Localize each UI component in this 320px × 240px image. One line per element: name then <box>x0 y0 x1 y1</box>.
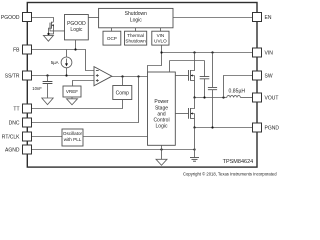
svg-text:Thermal: Thermal <box>127 33 144 38</box>
junction PGND/C3 <box>211 126 213 128</box>
svg-text:Control: Control <box>153 118 169 124</box>
svg-text:AGND: AGND <box>5 147 20 153</box>
VREF block <box>63 86 81 97</box>
junction VIN/rail riser <box>193 51 195 53</box>
svg-text:Shutdown: Shutdown <box>125 39 146 44</box>
wire Power Stage bottom ground stub <box>161 145 163 159</box>
junction AGND / PGND gnd <box>193 148 195 150</box>
svg-text:and: and <box>157 111 166 117</box>
OCP block <box>103 31 121 45</box>
svg-text:with PLL: with PLL <box>64 137 82 142</box>
pin SS/TR <box>23 71 32 80</box>
svg-text:VIN: VIN <box>157 33 165 38</box>
wire FB net <box>32 50 95 71</box>
svg-text:UVLO: UVLO <box>154 39 167 44</box>
pin PGOOD <box>23 13 32 22</box>
svg-text:5µA: 5µA <box>51 60 59 65</box>
svg-text:Copyright © 2018, Texas Instru: Copyright © 2018, Texas Instruments Inco… <box>183 172 277 177</box>
wire Comp top stub <box>122 77 124 86</box>
capacitor C2 <box>200 61 210 98</box>
wire VREF to amp <box>73 81 95 87</box>
wire AGND net <box>32 149 195 151</box>
Shutdown Logic block <box>99 8 173 27</box>
pin TT <box>23 104 32 113</box>
svg-text:TT: TT <box>13 106 19 112</box>
VIN UVLO block <box>152 31 169 45</box>
svg-text:SW: SW <box>265 73 273 79</box>
inductor L1 0.85uH <box>227 96 241 98</box>
svg-text:Logic: Logic <box>156 124 168 130</box>
wire SW pin branch <box>224 76 253 98</box>
junction FB / PGOOD Logic <box>74 48 76 50</box>
junction SW branch <box>222 96 224 98</box>
wire Shutdown Logic to VIN UVLO <box>160 28 162 31</box>
op-amp U1 error amplifier <box>94 67 112 86</box>
svg-text:PGOOD: PGOOD <box>1 15 20 21</box>
ground (under C1) <box>42 98 53 105</box>
junction VIN/C3 <box>211 51 213 53</box>
pin VOUT <box>253 93 262 102</box>
wire Shutdown Logic to OCP <box>111 28 113 31</box>
wire SS/TR net <box>32 75 95 77</box>
ground (analog, under Power Stage) <box>156 159 167 165</box>
wire PGND to ground <box>194 128 196 158</box>
pin EN <box>253 13 262 22</box>
wire PGOOD Logic to Shutdown Logic <box>88 17 98 19</box>
ground (under Q1) <box>43 35 53 41</box>
junction SW/FETs <box>193 96 195 98</box>
junction VIN/UVLO <box>160 51 162 53</box>
wire TT net to Comp <box>32 100 123 109</box>
svg-text:EN: EN <box>265 15 272 21</box>
ground (under VREF) <box>67 99 78 105</box>
wire inductor to VOUT <box>240 97 252 99</box>
junction Q1 source/body <box>47 33 49 35</box>
transistor Q2 (high side) <box>175 61 194 98</box>
svg-text:Comp: Comp <box>116 90 130 96</box>
junction output/DNC riser <box>137 75 139 77</box>
transistor Q3 (low side) <box>175 98 194 128</box>
svg-text:VIN: VIN <box>265 50 274 56</box>
module border <box>27 3 257 168</box>
svg-text:Logic: Logic <box>130 17 142 23</box>
svg-text:Logic: Logic <box>70 27 82 33</box>
wire RT/CLK to oscillator <box>32 136 63 138</box>
wire VIN rail above FET <box>170 53 205 73</box>
svg-text:SS/TR: SS/TR <box>5 73 20 79</box>
wire PGND net <box>195 127 253 129</box>
Thermal Shutdown block <box>125 31 147 45</box>
wire PGOOD pin to Q1 drain <box>32 18 54 22</box>
Comp block <box>113 86 132 100</box>
svg-text:VREF: VREF <box>66 89 78 94</box>
pin PGND <box>253 123 262 132</box>
wire oscillator to Power Stage <box>83 136 148 138</box>
current source I1 5uA <box>61 50 72 76</box>
wire Shutdown Logic to Thermal Shutdown <box>135 28 137 31</box>
svg-text:FB: FB <box>13 47 20 53</box>
capacitor C1 10nF <box>43 76 53 99</box>
pin VIN <box>253 48 262 57</box>
junction SS/TR / C1 <box>46 74 48 76</box>
svg-text:Power: Power <box>154 99 169 105</box>
svg-text:Oscillator: Oscillator <box>63 131 83 136</box>
pin DNC <box>23 118 32 127</box>
pin RT/CLK <box>23 132 32 141</box>
svg-text:VOUT: VOUT <box>265 95 279 101</box>
wire DNC net to amp output <box>32 77 139 123</box>
junction SW/C2 <box>203 96 205 98</box>
junction AGND / power stage gnd <box>160 148 162 150</box>
wire amp output to Power Stage <box>112 76 148 78</box>
svg-text:TPSM84624: TPSM84624 <box>223 159 254 165</box>
pin SW <box>253 71 262 80</box>
op-amp PGOOD Logic block <box>65 15 89 40</box>
Oscillator with PLL block <box>62 129 83 146</box>
wire EN net <box>173 17 253 19</box>
svg-text:OCP: OCP <box>107 36 117 41</box>
svg-text:RT/CLK: RT/CLK <box>2 134 20 140</box>
pin FB <box>23 45 32 54</box>
ground (power, earth style) <box>190 158 199 162</box>
wire VIN net <box>162 52 253 54</box>
Power Stage and Control Logic block <box>148 72 176 145</box>
svg-text:10nF: 10nF <box>32 86 42 91</box>
svg-text:DNC: DNC <box>9 120 20 126</box>
pin AGND <box>23 145 32 154</box>
svg-text:Shutdown: Shutdown <box>125 11 147 17</box>
wire PGOOD Logic bottom stub to FB net <box>75 40 77 50</box>
transistor Q1 (PGOOD open-drain FET) <box>49 22 65 36</box>
capacitor C3 (input cap) <box>208 53 217 128</box>
wire VREF to ground <box>71 97 73 99</box>
junction PGND/FET <box>193 126 195 128</box>
svg-text:Stage: Stage <box>155 105 168 111</box>
wire VIN UVLO to VIN net and down to Power Stage <box>148 45 162 72</box>
svg-text:0.85µH: 0.85µH <box>229 88 246 94</box>
svg-text:PGND: PGND <box>265 125 280 131</box>
wire SW node line with inductor L1 <box>195 97 227 99</box>
junction output/Comp <box>121 75 123 77</box>
junction SS/TR / 5uA <box>65 74 67 76</box>
